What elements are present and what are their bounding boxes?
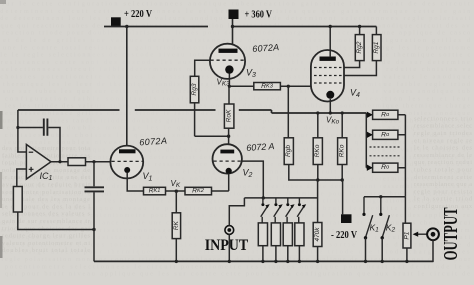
wire V4 anode to +360V rail <box>329 27 331 58</box>
tube V3 (6072A) <box>210 44 245 79</box>
resistor RD2 (input divider) <box>271 217 280 262</box>
label K1 <box>370 223 380 234</box>
resistor Ro2 (ladder) <box>366 130 405 139</box>
svg-text:RK1: RK1 <box>149 188 161 195</box>
resistor Rg1 (V4 control grid) <box>344 27 381 76</box>
resistor RD1 (input divider) <box>258 217 267 262</box>
capacitor C1 (op-amp feedback) <box>18 119 60 162</box>
resistor Ro1 (ladder) <box>366 110 405 119</box>
resistor RKo (first) <box>313 111 322 164</box>
resistor Rg3 <box>190 76 199 103</box>
svg-text:RoK: RoK <box>226 109 233 122</box>
svg-text:Ro: Ro <box>381 164 389 171</box>
wire input switch rail <box>244 196 317 199</box>
wire ground rail <box>94 260 433 263</box>
wire feedback rail (anode/VKo net) <box>18 110 366 113</box>
label OUTPUT <box>440 207 462 260</box>
connector input jack <box>225 226 234 235</box>
label 6072A (V1) <box>139 136 168 148</box>
svg-text:Rg3: Rg3 <box>191 83 198 95</box>
svg-text:valeurs potentiometre et ni: valeurs potentiometre et ni <box>2 240 90 247</box>
wire V4 cathode to node VKo <box>329 99 332 115</box>
svg-text:que reaction redui: que reaction redui <box>414 159 472 166</box>
svg-text:le la sortie triod: le la sortie triod <box>414 196 473 203</box>
resistor Rg2 (V4 screen) <box>344 27 364 68</box>
switch K2 <box>379 197 389 262</box>
wire Rg3 bottom to V2 anode row <box>194 103 196 136</box>
svg-text:determinent cette: determinent cette <box>414 174 472 181</box>
wire Ro ladder right bus <box>404 115 406 197</box>
label +360V <box>245 9 273 20</box>
svg-text:INPUT: INPUT <box>205 237 249 254</box>
switch K1 <box>362 197 372 262</box>
svg-text:et niveau regle re: et niveau regle re <box>414 137 472 144</box>
resistor RD3 (input divider) <box>283 217 292 262</box>
wire input jack to switch rail <box>229 198 244 226</box>
svg-text:470k: 470k <box>314 227 321 242</box>
svg-text:le le choisies des: le le choisies des <box>414 145 473 152</box>
svg-text:RKo: RKo <box>339 144 346 157</box>
resistor 470k <box>313 223 322 262</box>
resistor Ro3 (ladder) <box>366 163 405 172</box>
wire RKo1 bottom to 470k <box>317 180 319 223</box>
wire P1 wiper arrow <box>413 232 427 237</box>
svg-text:+ 220 V: + 220 V <box>124 9 152 20</box>
svg-text:qui pour bruit niveau applique: qui pour bruit niveau applique que les s… <box>5 271 470 278</box>
wire output jack ground <box>431 240 434 261</box>
wire feedback left drop to op-amp inverting input <box>16 110 26 152</box>
svg-text:Ro: Ro <box>381 111 389 118</box>
label 6072A (V3) <box>252 42 280 54</box>
wire V2 grid to input switch rail <box>241 161 263 198</box>
svg-text:Rg2: Rg2 <box>356 41 363 53</box>
label V1 <box>143 171 153 183</box>
wire RK1 to node VK <box>166 190 186 193</box>
svg-text:potentiometre selectionnees le: potentiometre selectionnees le circuit p… <box>5 263 471 270</box>
resistor RK3 <box>229 83 280 90</box>
wire bottoms join (Rgb RKo RKo) <box>289 165 344 182</box>
svg-text:regle pour resista: regle pour resista <box>414 188 472 195</box>
svg-text:ressemblance que a: ressemblance que a <box>414 181 472 188</box>
wire op-amp non-inverting input stub <box>17 169 27 187</box>
svg-text:RK: RK <box>173 221 180 231</box>
svg-text:RK3: RK3 <box>261 83 274 90</box>
wire +220V drop to V1 anode <box>126 27 128 151</box>
svg-text:6072A: 6072A <box>252 42 280 54</box>
wire V3 grid to Rg3 <box>195 60 211 76</box>
wire R+ to ground rail <box>18 212 96 231</box>
node -220V supply square <box>341 214 352 223</box>
svg-text:RK2: RK2 <box>192 188 205 195</box>
tube V2 (6072A) <box>213 144 242 174</box>
resistor RKo (second) <box>338 111 347 164</box>
svg-text:P1: P1 <box>403 231 410 239</box>
resistor R+ (op-amp ground leg) <box>13 187 22 213</box>
resistor RK (VK to ground) <box>172 191 180 261</box>
tube V1 (6072A) <box>110 146 143 179</box>
svg-text:ressemblance de le: ressemblance de le <box>414 152 472 159</box>
wire RK3 to V4 grid3 <box>280 85 311 88</box>
svg-text:6072A: 6072A <box>139 136 168 148</box>
label V3 <box>246 68 256 80</box>
label V2 <box>243 168 253 180</box>
switch S2 (input divider) <box>274 198 283 217</box>
wire K rail <box>364 195 405 198</box>
wire Ro ladder left bus <box>365 113 367 168</box>
wire V2 cathode lead <box>228 174 230 192</box>
label K2 <box>386 223 396 234</box>
wire +360V rail <box>231 25 377 28</box>
label VK <box>171 179 181 189</box>
capacitor C2 (grid to ground) <box>85 162 105 262</box>
potentiometer P1 <box>403 197 411 262</box>
resistor RD4 (input divider) <box>295 217 304 262</box>
label INPUT <box>205 237 249 254</box>
wire input jack ground <box>228 234 230 261</box>
wire V3 cathode to node VK3 <box>228 74 231 88</box>
resistor Rgb <box>284 86 293 164</box>
scan edge marks (decorative) <box>0 0 6 258</box>
wire ladder dashed rows (etc) <box>370 147 402 156</box>
connector output jack <box>427 228 439 240</box>
label VK3 <box>217 78 231 88</box>
switch S1 (input divider) <box>261 198 270 217</box>
node +220V supply square <box>111 17 121 27</box>
op-amp U1 (IC1) triangle <box>26 145 51 180</box>
svg-text:Rgb: Rgb <box>285 145 292 157</box>
tube V4 (pentode) <box>311 50 344 102</box>
wire RKo2 bottom to -220V <box>342 180 344 214</box>
wire +220V rail <box>104 25 208 28</box>
label VKo <box>326 116 340 126</box>
svg-text:- 220 V: - 220 V <box>331 230 357 241</box>
svg-text:OUTPUT: OUTPUT <box>440 207 462 260</box>
svg-text:Ro: Ro <box>381 131 389 138</box>
wire V2 anode to RoK bottom <box>195 135 231 145</box>
resistor RoK (V3 cathode to V2 anode) <box>224 86 234 136</box>
svg-text:doubles bruit total totale: doubles bruit total totale <box>2 247 90 254</box>
svg-text:Rg1: Rg1 <box>373 41 380 53</box>
resistor RK1 <box>144 187 166 195</box>
switch S4 (input divider) <box>297 198 306 217</box>
wire V1 cathode to RK1 <box>127 173 143 192</box>
svg-text:regle gain triodes: regle gain triodes <box>414 130 473 137</box>
label IC1 <box>40 171 53 182</box>
svg-text:des potentiometre pour tota: des potentiometre pour tota <box>2 145 90 152</box>
resistor RK2 <box>185 187 212 195</box>
resistor Rs (op-amp output series) <box>68 158 86 166</box>
label +220V <box>124 9 152 20</box>
wire +360V drop to V3 anode <box>232 19 234 49</box>
label 6072A (V2) <box>246 141 275 153</box>
svg-text:RKo: RKo <box>314 144 321 157</box>
svg-text:gain de sur ressemblance tr: gain de sur ressemblance tr <box>2 218 91 225</box>
label V4 <box>350 88 360 100</box>
wire op-amp output row <box>51 160 68 163</box>
svg-text:tubes totale pour: tubes totale pour <box>414 167 473 174</box>
label -220V <box>331 230 357 241</box>
svg-text:+ 360 V: + 360 V <box>245 9 273 20</box>
svg-text:6072 A: 6072 A <box>246 141 275 153</box>
switch S3 (input divider) <box>286 198 295 217</box>
svg-text:ressemblance selec: ressemblance selec <box>414 123 472 130</box>
wire RK2 to V2 cathode <box>212 190 229 192</box>
svg-text:reduite charge leur grilles: reduite charge leur grilles <box>2 233 91 240</box>
svg-text:selectionnees trio: selectionnees trio <box>414 115 472 122</box>
node +360V supply square <box>229 10 239 20</box>
wire Rs to V1 grid <box>86 160 111 163</box>
